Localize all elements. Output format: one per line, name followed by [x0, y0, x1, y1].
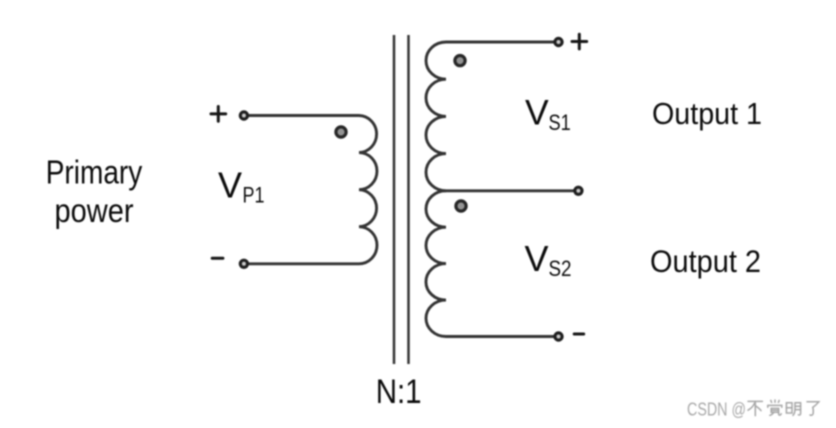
winding S1 — [426, 42, 446, 191]
wire secondary middle — [446, 189, 575, 192]
polarity dot S2 — [456, 201, 466, 211]
label VP1 — [218, 164, 265, 207]
svg-text:V: V — [525, 93, 549, 133]
watermark char ming — [786, 403, 800, 416]
svg-text:Output 2: Output 2 — [650, 244, 761, 279]
svg-text:Output 1: Output 1 — [652, 96, 762, 131]
terminal secondary middle — [575, 187, 582, 194]
label Primary power — [46, 154, 143, 230]
label VS2 — [525, 238, 572, 281]
wire primary bottom — [248, 262, 360, 265]
terminal secondary1 plus — [555, 38, 562, 45]
svg-text:power: power — [55, 193, 134, 230]
polarity dot P1 — [336, 127, 346, 137]
wire primary top — [248, 114, 360, 117]
watermark char jue — [768, 400, 782, 415]
winding S2 — [426, 191, 446, 337]
label plus primary — [211, 107, 226, 122]
watermark CSDN — [687, 399, 819, 419]
core — [394, 35, 409, 364]
label VS1 — [525, 93, 571, 135]
svg-text:Primary: Primary — [46, 154, 143, 191]
svg-text:N:1: N:1 — [376, 373, 422, 411]
svg-text:V: V — [218, 164, 242, 205]
terminal secondary2 minus — [555, 333, 562, 340]
wire secondary1 top — [446, 41, 555, 44]
svg-text:S2: S2 — [549, 256, 572, 281]
label minus secondary2 — [574, 333, 584, 336]
winding P1 — [359, 116, 377, 264]
watermark char bu — [748, 401, 762, 415]
terminal primary minus — [240, 260, 247, 267]
label minus primary — [212, 257, 223, 260]
svg-text:S1: S1 — [549, 110, 571, 135]
wire secondary2 bottom — [446, 335, 555, 338]
polarity dot S1 — [455, 56, 465, 66]
watermark char le — [807, 402, 819, 415]
svg-text:CSDN @: CSDN @ — [687, 399, 746, 419]
svg-text:P1: P1 — [243, 182, 265, 207]
terminal primary plus — [240, 112, 247, 119]
label plus secondary1 — [572, 34, 587, 49]
svg-text:V: V — [525, 238, 549, 279]
